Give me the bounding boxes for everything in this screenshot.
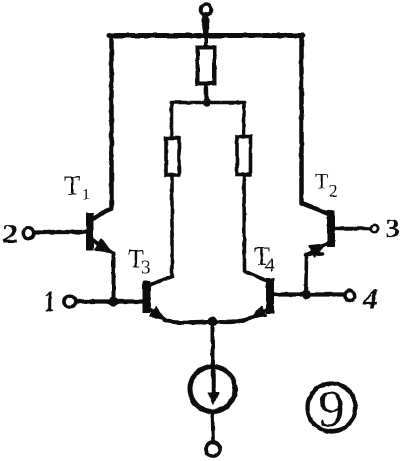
wire T1 emitter riser xyxy=(112,254,116,302)
wire tail down xyxy=(211,322,215,366)
node junction 4 xyxy=(302,290,311,299)
wire T4 emitter to tail node xyxy=(214,318,250,322)
node branch junction xyxy=(203,98,211,106)
current source I1 xyxy=(190,367,235,412)
svg-text:2: 2 xyxy=(329,182,338,201)
svg-text:1: 1 xyxy=(44,285,55,318)
node tail junction xyxy=(208,317,218,327)
wire T1 base lead xyxy=(34,230,86,234)
node junction 1 xyxy=(109,297,118,306)
wire left branch top lead xyxy=(170,103,174,139)
wire top stub xyxy=(203,15,209,34)
svg-text:9: 9 xyxy=(319,381,345,438)
wire T4 collector riser xyxy=(244,175,266,281)
label figure 9 xyxy=(308,384,356,432)
terminal bottom xyxy=(206,442,220,456)
transistor T3 emitter xyxy=(150,309,166,320)
wire branch rail xyxy=(172,101,245,105)
svg-text:T: T xyxy=(315,169,329,194)
wire T2 emitter riser xyxy=(306,254,322,295)
terminal 2 xyxy=(23,228,33,238)
transistor T4 base bar xyxy=(266,278,274,314)
transistor T3 base bar xyxy=(143,281,151,313)
transistor T4 emitter xyxy=(251,310,266,318)
resistor R2 xyxy=(166,138,179,175)
wire terminal1 to T3 base xyxy=(77,299,143,303)
resistor R1 xyxy=(198,48,215,84)
node top junction xyxy=(202,32,209,39)
resistor R3 xyxy=(237,137,251,175)
wire T1 collector riser xyxy=(92,36,112,220)
wire resistor R1 bottom lead xyxy=(204,84,209,103)
terminal 1 xyxy=(64,296,76,308)
node V+ terminal xyxy=(201,4,212,15)
svg-text:T: T xyxy=(64,171,81,201)
terminal 4 xyxy=(345,291,355,301)
svg-text:2: 2 xyxy=(2,220,18,249)
svg-text:4: 4 xyxy=(362,283,378,316)
transistor T2 emitter xyxy=(306,244,328,256)
wire bottom lead xyxy=(211,412,215,442)
wire T4 base lead xyxy=(274,292,345,296)
transistor T1 emitter xyxy=(91,239,114,254)
wire T2 collector riser xyxy=(302,36,328,214)
svg-text:3: 3 xyxy=(141,258,151,279)
wire resistor R1 top lead xyxy=(204,36,208,49)
svg-text:4: 4 xyxy=(265,255,275,276)
svg-text:3: 3 xyxy=(386,214,400,243)
wire top rail xyxy=(109,33,303,38)
transistor T2 base bar xyxy=(327,210,335,247)
wire T3 collector riser xyxy=(151,175,173,285)
wire T2 base lead xyxy=(335,227,371,231)
wire right branch top lead xyxy=(242,103,246,138)
terminal 3 xyxy=(371,225,378,232)
svg-text:1: 1 xyxy=(82,187,90,204)
transistor T1 base bar xyxy=(86,213,94,251)
wire T3 emitter to tail node xyxy=(164,320,211,323)
